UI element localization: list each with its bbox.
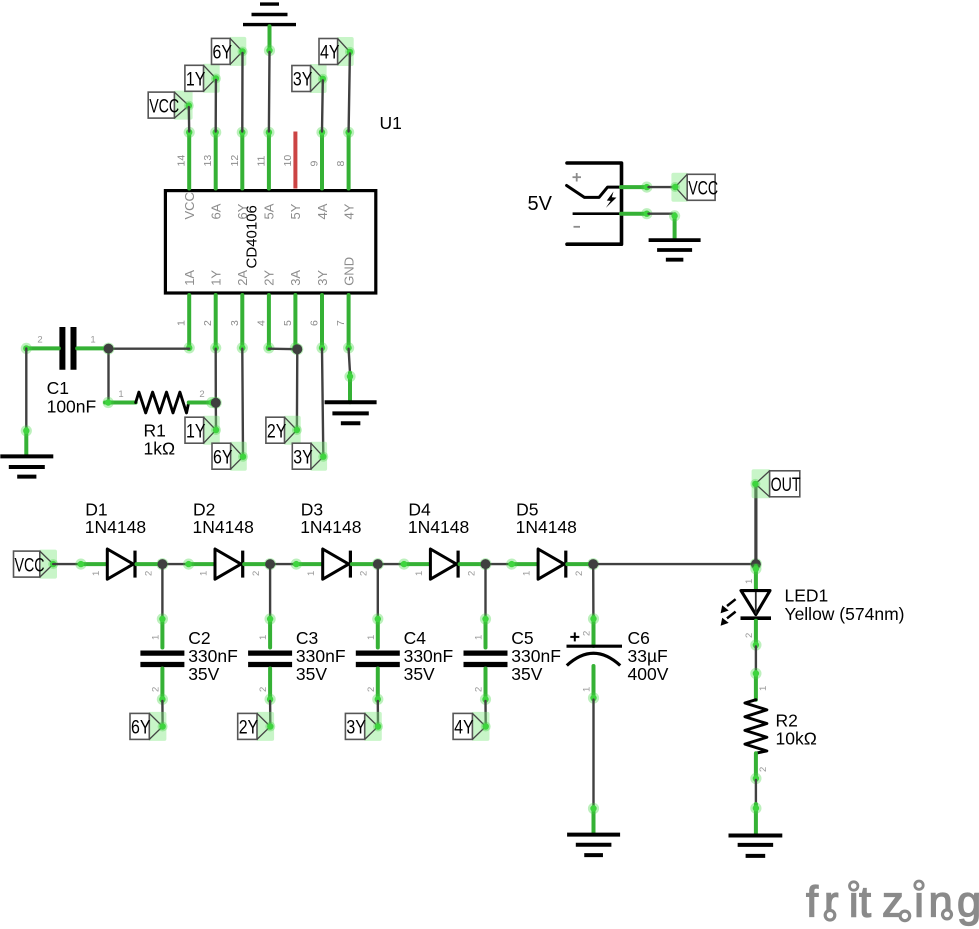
LED LED1 bbox=[721, 563, 771, 650]
svg-text:2: 2 bbox=[202, 320, 214, 326]
label D4 1N4148 bbox=[408, 500, 469, 538]
svg-text:LED1: LED1 bbox=[785, 586, 829, 606]
svg-text:14: 14 bbox=[176, 155, 188, 167]
svg-text:6Y: 6Y bbox=[213, 447, 233, 468]
svg-text:C3: C3 bbox=[296, 628, 318, 648]
wire D4 cathode to next bbox=[486, 563, 511, 565]
label D1 1N4148 bbox=[85, 500, 146, 538]
battery 5V bbox=[567, 163, 622, 244]
wire battery - to ground bbox=[649, 214, 675, 237]
svg-text:4Y: 4Y bbox=[341, 203, 356, 219]
wire C6 pin1 down to ground bbox=[592, 700, 594, 807]
svg-text:13: 13 bbox=[202, 155, 214, 167]
wire C5 pin2 to 4Y label bbox=[484, 701, 487, 725]
resistor R1 bbox=[103, 389, 218, 413]
net label 6Y (top) bbox=[212, 37, 248, 66]
wire pin 6 (3Y) down to 3Y label bbox=[322, 349, 323, 456]
svg-text:1Y: 1Y bbox=[186, 70, 206, 91]
label D5 1N4148 bbox=[516, 500, 577, 538]
wire C4 pin2 to 3Y label bbox=[377, 701, 380, 725]
wire D5 cathode to OUT junction bbox=[593, 563, 756, 565]
svg-text:2Y: 2Y bbox=[239, 718, 259, 739]
net label 1Y (below IC) bbox=[185, 416, 221, 445]
svg-text:10kΩ: 10kΩ bbox=[776, 729, 817, 749]
wire VCC label to pin bbox=[188, 107, 191, 131]
svg-text:6Y: 6Y bbox=[131, 718, 151, 739]
svg-text:f: f bbox=[806, 879, 819, 927]
wire ground to pin 11 (5A) bbox=[268, 52, 271, 132]
svg-text:C6: C6 bbox=[628, 628, 650, 648]
svg-text:OUT: OUT bbox=[771, 475, 801, 496]
wire OUT label to rail bbox=[754, 485, 757, 564]
label C4 330nF 35V bbox=[404, 628, 454, 684]
svg-text:3A: 3A bbox=[288, 270, 303, 286]
net label 3Y (below IC) bbox=[292, 442, 328, 471]
net label VCC (battery +) bbox=[670, 173, 718, 202]
svg-text:9: 9 bbox=[309, 161, 321, 167]
wire pin 7 (GND) down to ground bbox=[349, 349, 350, 373]
ground (below IC pin 7) bbox=[325, 371, 377, 423]
svg-text:2: 2 bbox=[251, 571, 262, 576]
net label 6Y (below IC) bbox=[212, 442, 248, 471]
svg-text:1: 1 bbox=[91, 571, 102, 576]
net label 1Y (top) bbox=[185, 64, 221, 93]
svg-text:1: 1 bbox=[199, 571, 210, 576]
svg-text:VCC: VCC bbox=[182, 192, 197, 219]
svg-text:1: 1 bbox=[118, 389, 123, 400]
pin 5 3A bbox=[282, 295, 301, 354]
svg-text:11: 11 bbox=[255, 155, 267, 166]
net label 3Y (top) bbox=[292, 64, 328, 93]
wire rail down to C3 bbox=[269, 564, 271, 617]
wire battery - terminal bbox=[621, 208, 652, 219]
node junction D1 cathode bbox=[156, 558, 168, 570]
svg-text:1: 1 bbox=[258, 635, 269, 640]
label 5V bbox=[528, 193, 553, 215]
svg-text:2: 2 bbox=[574, 571, 585, 576]
svg-text:C2: C2 bbox=[188, 628, 210, 648]
svg-text:R1: R1 bbox=[144, 421, 166, 441]
pin 10 5Y unconnected (red) bbox=[282, 132, 296, 189]
svg-text:35V: 35V bbox=[511, 664, 542, 684]
svg-text:2A: 2A bbox=[235, 270, 250, 286]
svg-text:1: 1 bbox=[582, 687, 593, 692]
svg-text:2: 2 bbox=[258, 687, 269, 692]
svg-text:2: 2 bbox=[366, 687, 377, 692]
svg-text:1: 1 bbox=[758, 686, 769, 691]
svg-text:t: t bbox=[859, 879, 871, 927]
ground (bottom left, C1) bbox=[0, 425, 53, 476]
svg-text:1Y: 1Y bbox=[186, 421, 206, 442]
label C1 100nF bbox=[47, 378, 97, 416]
wire junction down to 1Y label bbox=[215, 403, 218, 429]
svg-text:1: 1 bbox=[414, 571, 425, 576]
svg-text:2Y: 2Y bbox=[262, 270, 277, 286]
svg-text:C4: C4 bbox=[404, 628, 427, 648]
resistor R2 bbox=[745, 668, 769, 784]
svg-text:2: 2 bbox=[150, 687, 161, 692]
svg-text:1: 1 bbox=[744, 579, 755, 584]
label U1 bbox=[380, 113, 402, 133]
capacitor C2 330nF bbox=[140, 613, 184, 705]
pin 7 GND bbox=[335, 295, 354, 354]
svg-text:1: 1 bbox=[522, 571, 533, 576]
capacitor C3 330nF bbox=[248, 613, 292, 705]
wire R2 down to ground bbox=[755, 780, 757, 804]
pin 9 4A bbox=[309, 127, 328, 189]
svg-text:C5: C5 bbox=[511, 628, 533, 648]
net label 2Y (below C3) bbox=[238, 712, 276, 741]
svg-text:1N4148: 1N4148 bbox=[408, 517, 469, 537]
svg-text:5V: 5V bbox=[528, 193, 553, 215]
node junction D5 cathode bbox=[587, 558, 599, 570]
wire LED1 to R2 bbox=[755, 647, 757, 673]
wire D3 cathode to next bbox=[378, 563, 403, 565]
svg-text:4Y: 4Y bbox=[454, 718, 474, 739]
wire C3 pin2 to 2Y label bbox=[269, 701, 272, 725]
svg-text:VCC: VCC bbox=[15, 555, 45, 576]
svg-text:U1: U1 bbox=[380, 113, 402, 133]
label LED1 Yellow (574nm) bbox=[785, 586, 905, 624]
net label VCC (rail, bottom left) bbox=[14, 550, 59, 579]
svg-text:1N4148: 1N4148 bbox=[516, 517, 577, 537]
wire C2 pin2 to 6Y label bbox=[161, 701, 164, 725]
node junction OUT-LED bbox=[750, 558, 762, 570]
wire pin 4 (2Y) to pin-5 junction bbox=[269, 348, 297, 351]
wire rail down to C6 bbox=[592, 564, 595, 617]
wire D1 cathode to next bbox=[162, 563, 187, 565]
svg-text:6Y: 6Y bbox=[213, 43, 233, 64]
svg-text:2: 2 bbox=[582, 631, 593, 636]
svg-text:35V: 35V bbox=[296, 664, 327, 684]
net label 2Y (below IC) bbox=[266, 416, 302, 445]
pin 13 6A bbox=[202, 127, 221, 189]
svg-text:1N4148: 1N4148 bbox=[85, 517, 146, 537]
svg-text:2: 2 bbox=[143, 571, 154, 576]
svg-text:35V: 35V bbox=[188, 664, 219, 684]
svg-text:2: 2 bbox=[744, 633, 755, 638]
svg-text:2: 2 bbox=[466, 571, 477, 576]
svg-text:330nF: 330nF bbox=[188, 646, 238, 666]
svg-text:3Y: 3Y bbox=[293, 70, 313, 91]
svg-text:4: 4 bbox=[255, 320, 267, 326]
net label 4Y (below C5) bbox=[453, 712, 491, 741]
label R2 10k&#937; bbox=[776, 711, 817, 749]
svg-text:6A: 6A bbox=[209, 203, 224, 219]
label C3 330nF 35V bbox=[296, 628, 346, 684]
pin 11 5A bbox=[255, 127, 274, 189]
svg-text:4A: 4A bbox=[315, 203, 330, 219]
wire 4Y label to pin bbox=[349, 53, 350, 131]
label C6 33uF 400V bbox=[628, 628, 669, 684]
svg-text:g: g bbox=[957, 879, 979, 927]
capacitor C1 bbox=[21, 327, 109, 370]
label D2 1N4148 bbox=[193, 500, 254, 538]
pin 14 VCC bbox=[176, 127, 195, 189]
svg-text:12: 12 bbox=[229, 155, 241, 167]
svg-text:2: 2 bbox=[359, 571, 370, 576]
ground (below R2) bbox=[729, 803, 783, 856]
svg-text:1N4148: 1N4148 bbox=[193, 517, 254, 537]
svg-text:100nF: 100nF bbox=[47, 396, 97, 416]
node junction D2 cathode bbox=[264, 558, 276, 570]
svg-text:GND: GND bbox=[341, 257, 356, 286]
diode D5 1N4148 bbox=[506, 549, 593, 579]
label C2 330nF 35V bbox=[188, 628, 238, 684]
diode D4 1N4148 bbox=[398, 549, 485, 579]
capacitor C4 330nF bbox=[356, 613, 400, 705]
wire junction down to 2Y label bbox=[296, 349, 299, 429]
svg-text:1N4148: 1N4148 bbox=[300, 517, 361, 537]
svg-text:2Y: 2Y bbox=[267, 421, 287, 442]
node A junction C1-pin1-R1 bbox=[103, 343, 115, 355]
svg-text:3: 3 bbox=[229, 320, 241, 326]
svg-text:1Y: 1Y bbox=[209, 270, 224, 286]
svg-text:1: 1 bbox=[366, 635, 377, 640]
svg-text:3Y: 3Y bbox=[315, 270, 330, 286]
svg-text:330nF: 330nF bbox=[404, 646, 454, 666]
pin 3 2A bbox=[229, 295, 248, 354]
label D3 1N4148 bbox=[300, 500, 361, 538]
label R1 1k&#937; bbox=[144, 421, 176, 459]
wire battery + terminal bbox=[621, 182, 652, 193]
net label OUT bbox=[750, 469, 800, 498]
svg-text:330nF: 330nF bbox=[511, 646, 561, 666]
svg-text:R2: R2 bbox=[776, 711, 798, 731]
node B junction R1-pin2-1Y bbox=[210, 397, 222, 409]
svg-text:2: 2 bbox=[199, 389, 204, 400]
svg-text:Yellow (574nm): Yellow (574nm) bbox=[785, 604, 905, 624]
svg-text:1: 1 bbox=[150, 635, 161, 640]
svg-text:VCC: VCC bbox=[149, 96, 179, 117]
wire D2 cathode to next bbox=[270, 563, 295, 565]
node junction D3 cathode bbox=[372, 558, 384, 570]
ground (top, above pin 11) bbox=[243, 4, 296, 56]
svg-text:5Y: 5Y bbox=[288, 203, 303, 219]
svg-text:1: 1 bbox=[176, 320, 188, 326]
svg-text:5: 5 bbox=[282, 320, 294, 326]
wire C1 pin2 down to ground bbox=[25, 348, 27, 429]
pin 12 6Y bbox=[229, 127, 248, 189]
wire 1Y label to pin bbox=[214, 80, 217, 132]
svg-text:CD40106: CD40106 bbox=[244, 205, 261, 268]
svg-text:1A: 1A bbox=[182, 270, 197, 286]
diode D1 1N4148 bbox=[75, 549, 162, 579]
wire rail down to C4 bbox=[377, 564, 379, 617]
label C5 330nF 35V bbox=[511, 628, 561, 684]
wire 6Y label to pin bbox=[241, 53, 244, 132]
svg-text:10: 10 bbox=[282, 155, 294, 167]
diode D3 1N4148 bbox=[291, 549, 378, 579]
svg-text:33µF: 33µF bbox=[628, 646, 668, 666]
svg-text:2: 2 bbox=[758, 767, 769, 772]
diode D2 1N4148 bbox=[183, 549, 270, 579]
op-amp U1 IC CD40106 body bbox=[165, 191, 375, 293]
wire pin 3 (2A) down to 6Y label bbox=[241, 349, 244, 456]
capacitor C5 330nF bbox=[464, 613, 508, 705]
ground (below C6) bbox=[567, 803, 620, 855]
wire to VCC label (right) bbox=[649, 186, 675, 188]
svg-text:1: 1 bbox=[90, 335, 95, 346]
svg-text:330nF: 330nF bbox=[296, 646, 346, 666]
svg-text:35V: 35V bbox=[404, 664, 435, 684]
pin 2 1Y bbox=[202, 295, 221, 354]
svg-text:C1: C1 bbox=[47, 378, 69, 398]
svg-text:3Y: 3Y bbox=[346, 718, 366, 739]
pin 4 2Y bbox=[255, 295, 274, 354]
wire 3Y label to pin bbox=[321, 80, 324, 131]
svg-text:2: 2 bbox=[474, 687, 485, 692]
svg-text:VCC: VCC bbox=[688, 179, 718, 200]
net label 3Y (below C4) bbox=[345, 712, 383, 741]
fritzing watermark bbox=[806, 879, 979, 927]
net label 4Y (top) bbox=[319, 37, 355, 66]
wire rail down to C5 bbox=[484, 564, 486, 617]
wire rail down to C2 bbox=[161, 564, 163, 617]
svg-text:5A: 5A bbox=[262, 203, 277, 219]
node junction D4 cathode bbox=[480, 558, 492, 570]
wire junction to pin 1 (1A) bbox=[109, 348, 190, 350]
pin 1 1A bbox=[176, 295, 195, 354]
svg-text:6: 6 bbox=[309, 320, 321, 326]
svg-text:1kΩ: 1kΩ bbox=[144, 439, 176, 459]
svg-text:8: 8 bbox=[335, 161, 347, 167]
wire VCC label to D1 bbox=[53, 563, 79, 565]
svg-text:7: 7 bbox=[335, 320, 347, 326]
svg-text:4Y: 4Y bbox=[320, 43, 340, 64]
svg-text:1: 1 bbox=[306, 571, 317, 576]
capacitor C6 33uF electrolytic bbox=[567, 613, 623, 703]
ground (battery) bbox=[649, 210, 701, 259]
svg-text:400V: 400V bbox=[628, 664, 669, 684]
wire junction down to R1 bbox=[107, 349, 109, 401]
net label VCC (top) bbox=[148, 91, 194, 120]
wire pin 2 (1Y) down to junction bbox=[214, 349, 217, 403]
pin 8 4Y bbox=[335, 127, 354, 189]
svg-text:3Y: 3Y bbox=[293, 447, 313, 468]
pin 6 3Y bbox=[309, 295, 328, 354]
svg-text:2: 2 bbox=[37, 335, 42, 346]
svg-text:1: 1 bbox=[474, 635, 485, 640]
net label 6Y (below C2) bbox=[130, 712, 168, 741]
node C junction pin4-pin5 bbox=[291, 343, 303, 355]
